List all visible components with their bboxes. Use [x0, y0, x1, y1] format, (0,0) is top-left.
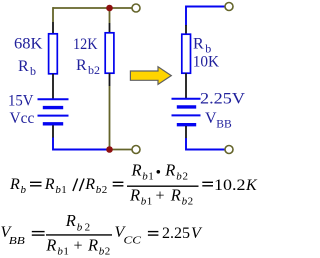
resistor Rb2 12K body: [105, 33, 114, 73]
svg-text:R: R: [9, 176, 20, 193]
svg-text:10K: 10K: [193, 54, 220, 71]
label Rb right: [193, 36, 211, 56]
battery V_BB plates: [172, 99, 201, 125]
svg-text:2.25: 2.25: [162, 225, 190, 242]
svg-text:10.2: 10.2: [214, 177, 246, 194]
svg-text:b: b: [21, 184, 27, 196]
svg-text:12K: 12K: [73, 36, 98, 53]
resistor Rb 10K body: [182, 34, 191, 73]
svg-text:b: b: [77, 221, 83, 233]
svg-text:BB: BB: [216, 116, 232, 130]
svg-text:1: 1: [148, 171, 154, 183]
svg-text:2: 2: [188, 195, 194, 207]
wire: blue bottom-left corner to junction: [53, 138, 110, 150]
label Rb2: [76, 57, 100, 77]
svg-text:R: R: [170, 185, 181, 204]
eq2 equals 1: [32, 231, 45, 233]
terminal top left circuit: [132, 4, 140, 12]
eq2 fraction bar: [46, 234, 112, 236]
svg-text:+: +: [156, 187, 165, 204]
wire: top bus left circuit: [53, 7, 132, 9]
terminal top right circuit: [225, 3, 233, 11]
eq1 numerator Rb1 . Rb2: [131, 161, 189, 183]
svg-text:BB: BB: [9, 235, 25, 247]
svg-text:R: R: [164, 161, 175, 180]
wire: lead battery Vcc to bottom corner: [52, 125, 54, 138]
svg-text:b: b: [176, 171, 182, 183]
eq1 equals 2: [113, 181, 124, 183]
svg-text:R: R: [76, 57, 87, 74]
svg-text:R: R: [45, 235, 56, 254]
junction dot bottom: [106, 146, 113, 153]
svg-text:R: R: [65, 211, 76, 230]
svg-text:K: K: [245, 177, 258, 194]
svg-text:R: R: [18, 58, 29, 75]
svg-text:R: R: [129, 185, 140, 204]
svg-text:2: 2: [183, 171, 189, 183]
svg-text:R: R: [44, 176, 55, 193]
resistor Rb1 68K body: [49, 34, 58, 74]
svg-text:1: 1: [63, 246, 69, 258]
eq1 equals 1: [30, 181, 42, 183]
svg-text:2: 2: [105, 246, 111, 258]
wire: middle vertical top (junction to R_b2): [109, 8, 111, 34]
terminal bottom right circuit: [225, 146, 233, 154]
eq2 result 2.25V: [162, 225, 203, 242]
eq1 equals 3: [202, 181, 213, 183]
svg-text:15V: 15V: [8, 92, 34, 109]
label Rb: [18, 58, 36, 78]
battery Vcc plates: [38, 99, 69, 124]
svg-text:+: +: [74, 237, 83, 254]
wire: lead to R_b: [185, 25, 187, 35]
arrow (transform symbol): [130, 67, 171, 85]
svg-text:V: V: [191, 225, 203, 242]
svg-text:V: V: [205, 110, 217, 127]
eq1 parallel slashes: [73, 179, 78, 192]
junction dot top: [106, 5, 113, 12]
svg-text:b2: b2: [88, 63, 100, 77]
svg-text:Vcc: Vcc: [10, 110, 35, 127]
wire: lead R_b to battery V_BB: [185, 73, 187, 98]
eq2 denominator Rb1 + Rb2: [45, 235, 110, 257]
svg-text:b: b: [30, 64, 36, 78]
svg-text:CC: CC: [124, 235, 142, 247]
eq2 numerator Rb2: [65, 211, 90, 233]
svg-text:R: R: [193, 36, 204, 53]
svg-text:1: 1: [147, 195, 153, 207]
equation 2: V_BB = Rb2/(Rb1+Rb2) Vcc = 2.25V: [1, 211, 204, 257]
svg-text:1: 1: [61, 184, 66, 196]
svg-text:2.25V: 2.25V: [200, 91, 245, 108]
equation 1: Rb = Rb1 // Rb2 = (Rb1*Rb2)/(Rb1+Rb2) = 10.2K: [9, 161, 258, 208]
eq1 denominator Rb1 + Rb2: [129, 185, 193, 207]
svg-text:R: R: [131, 161, 142, 180]
svg-text:R: R: [84, 176, 95, 193]
wire: right circuit bottom: [186, 138, 225, 150]
wire: left vertical from top bus to R_b1: [52, 7, 54, 34]
wire: lead R_b1 to battery Vcc: [52, 74, 54, 99]
svg-text:68K: 68K: [14, 36, 43, 53]
wire: middle vertical bottom (R_b2 to bottom bus): [109, 73, 111, 150]
wire: right circuit top: [186, 7, 225, 26]
eq1 fraction bar: [127, 185, 199, 187]
terminal bottom left circuit: [132, 146, 140, 154]
svg-text:2: 2: [85, 221, 91, 233]
wire: bottom bus junction to terminal: [110, 149, 132, 151]
eq1 result 10.2K: [214, 177, 258, 194]
wire: lead battery V_BB down: [185, 126, 187, 139]
label VBB: [205, 110, 232, 130]
svg-text:R: R: [87, 235, 98, 254]
eq2 equals 2: [148, 231, 159, 233]
svg-text:2: 2: [102, 184, 108, 196]
